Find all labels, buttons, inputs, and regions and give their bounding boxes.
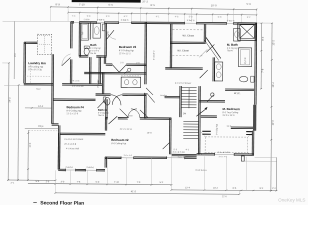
stair arrow: [196, 109, 206, 117]
svg-text:Landing: Landing: [160, 95, 167, 97]
bottom dims row B: [28, 183, 171, 184]
bath shelf: [102, 24, 105, 31]
laundry room walls: [24, 41, 37, 43]
closet dividers south of bath: [88, 57, 90, 84]
bath2 door arcs: [111, 95, 121, 106]
mbedroom entry wall: [199, 100, 225, 102]
closet rod dashes: [173, 29, 203, 31]
west wall window marks: [202, 131, 211, 135]
svg-text:3'-0 x 6'-8 sldr: 3'-0 x 6'-8 sldr: [72, 85, 84, 88]
svg-text:Bath #2: Bath #2: [98, 108, 108, 112]
svg-text:Tile Flr: Tile Flr: [90, 53, 96, 55]
svg-text:15'-0 x 16'-0: 15'-0 x 16'-0: [222, 115, 235, 117]
svg-text:3'-6 CLG HGT ROOF: 3'-6 CLG HGT ROOF: [64, 139, 84, 141]
svg-text:8'-2: 8'-2: [262, 36, 265, 41]
hallway north wall: [62, 83, 102, 85]
svg-text:Ridge: Ridge: [38, 126, 45, 128]
svg-text:41'-2: 41'-2: [131, 190, 137, 193]
closet south wall: [165, 67, 202, 69]
mbath vanity2: [233, 29, 240, 42]
svg-text:11'-0: 11'-0: [272, 120, 275, 126]
stairwell east wall: [197, 86, 199, 154]
exterior right wall: [254, 23, 257, 105]
svg-text:W.I. Closet: W.I. Closet: [182, 34, 194, 37]
mbedroom entry closet wall: [201, 115, 217, 117]
svg-text:8'-0 Clg Hgt: 8'-0 Clg Hgt: [90, 47, 101, 50]
dashed roof lines: [29, 130, 59, 132]
bottom right step: [241, 156, 244, 161]
bedroom3 closet doors: [112, 65, 119, 73]
svg-text:2'-6x3'-6: 2'-6x3'-6: [66, 167, 73, 169]
svg-text:W.I.C.: W.I.C.: [234, 92, 241, 95]
svg-text:5'-6: 5'-6: [247, 2, 252, 6]
svg-text:21'-2 x 13'-8: 21'-2 x 13'-8: [64, 144, 77, 146]
bath tub: [81, 23, 89, 40]
central wall: [144, 22, 146, 84]
svg-text:Linen: Linen: [128, 115, 133, 117]
svg-text:Hallway: Hallway: [98, 79, 100, 88]
bath2 toilet: [105, 97, 110, 105]
svg-text:Bath: Bath: [90, 43, 97, 47]
svg-text:5'-8 x 3'-6: 5'-8 x 3'-6: [71, 80, 79, 82]
svg-text:12'-4: 12'-4: [185, 187, 191, 189]
bedroom2 north wall: [105, 116, 107, 118]
svg-text:11'-2 x 12'-0: 11'-2 x 12'-0: [66, 113, 79, 115]
svg-text:3'-0x1'-6: 3'-0x1'-6: [187, 20, 195, 22]
svg-text:14'-2: 14'-2: [38, 105, 44, 108]
extension line top-left: [3, 20, 72, 22]
svg-text:W.I. Closet: W.I. Closet: [177, 49, 189, 52]
west wall jog: [52, 123, 59, 125]
svg-text:10'-0: 10'-0: [211, 3, 217, 7]
svg-text:Roof Below: Roof Below: [196, 170, 208, 172]
svg-text:Bedroom #4: Bedroom #4: [66, 105, 84, 109]
svg-text:22'-6: 22'-6: [222, 196, 228, 198]
bump west wall: [57, 133, 59, 169]
main left wall: [70, 22, 72, 49]
svg-text:3'-0x1'-6: 3'-0x1'-6: [227, 20, 235, 22]
svg-text:9'-0 Trey Ceiling: 9'-0 Trey Ceiling: [222, 111, 239, 114]
exterior top wall: [71, 21, 74, 23]
svg-text:21'-2 x 11'-8: 21'-2 x 11'-8: [120, 129, 133, 131]
bath2 south wall: [96, 93, 111, 95]
mbath tub: [238, 48, 251, 67]
svg-text:8'-0 Ceiling Hgt: 8'-0 Ceiling Hgt: [111, 142, 126, 145]
mbath south wall: [225, 88, 254, 90]
svg-text:3'-0x4'-6: 3'-0x4'-6: [97, 19, 105, 21]
svg-text:3'-0 x 4'-6 DH: 3'-0 x 4'-6 DH: [218, 152, 231, 154]
svg-text:37'-2: 37'-2: [142, 0, 148, 4]
bath right wall: [104, 23, 106, 56]
stair lower treads: [183, 120, 198, 122]
bath2 west wall: [101, 73, 103, 94]
mbedroom door swing: [207, 95, 214, 102]
svg-text:My Tub: My Tub: [245, 56, 247, 63]
right dimension lines: [260, 23, 262, 89]
mbath vanity: [215, 62, 223, 81]
svg-text:2'-8 x 4'-0: 2'-8 x 4'-0: [178, 157, 186, 159]
svg-text:7'-10: 7'-10: [79, 2, 85, 6]
svg-text:Bedroom #3: Bedroom #3: [119, 45, 137, 49]
svg-text:8'-9: 8'-9: [56, 2, 61, 6]
svg-text:5-0500: 5-0500: [84, 19, 90, 21]
mbath shower: [238, 23, 257, 41]
bedroom3 entry door: [107, 30, 114, 39]
svg-text:6'-5: 6'-5: [109, 3, 114, 7]
hall closet arcs: [128, 109, 137, 118]
bedroom2 door swing: [109, 116, 118, 124]
bottom dims row D: [55, 193, 239, 194]
svg-text:4'-0 Knee Wall: 4'-0 Knee Wall: [66, 148, 79, 150]
svg-text:9'-0 Clg Hgt: 9'-0 Clg Hgt: [215, 124, 218, 135]
left dimension lines: [7, 63, 10, 180]
stair treads: [182, 87, 197, 89]
stair hall door: [200, 70, 208, 78]
svg-text:8'-0 Ceiling Hgt: 8'-0 Ceiling Hgt: [66, 109, 81, 112]
extension verticals top: [50, 8, 52, 21]
hallway south wall: [53, 98, 95, 100]
stairwell west wall: [179, 86, 181, 117]
svg-text:3'-0 x 4'-6 DH: 3'-0 x 4'-6 DH: [173, 152, 186, 154]
svg-text:8'-5: 8'-5: [151, 3, 156, 7]
angled closet doors: [206, 37, 221, 58]
svg-text:13'-8: 13'-8: [30, 142, 32, 148]
svg-text:3'-0x4'-6: 3'-0x4'-6: [121, 20, 129, 22]
top dimension line overall: [51, 7, 257, 10]
bedroom3 west wall: [103, 57, 105, 64]
west wall mid: [51, 54, 53, 123]
central door swing: [146, 88, 153, 95]
exterior bottom wall right part: [197, 152, 215, 154]
top dimension line secondary: [68, 13, 257, 15]
svg-text:Bedroom #2: Bedroom #2: [111, 138, 129, 142]
bath divider wall: [89, 22, 91, 39]
svg-text:12'-0 x 11'-2: 12'-0 x 11'-2: [119, 53, 132, 55]
bump south wall: [58, 168, 65, 170]
bottom dims row A: [8, 179, 55, 181]
svg-text:Roof: Roof: [36, 89, 41, 91]
svg-text:12'-2: 12'-2: [272, 40, 275, 46]
svg-text:Laundry Rm: Laundry Rm: [28, 61, 46, 65]
svg-text:M. Bedroom: M. Bedroom: [222, 107, 240, 111]
bedroom2 bottom wall: [105, 156, 121, 158]
svg-text:29'-2: 29'-2: [8, 97, 11, 103]
svg-text:Tile Flr: Tile Flr: [98, 115, 104, 117]
bath toilet: [84, 48, 89, 55]
svg-text:2'-6x3'-6: 2'-6x3'-6: [87, 167, 94, 169]
bedroom3 ceiling fan: [128, 68, 131, 71]
laundry door swing: [62, 57, 71, 66]
svg-text:4'-0 x 5'-0 Shower: 4'-0 x 5'-0 Shower: [175, 83, 191, 85]
bump north wall: [60, 132, 105, 134]
svg-text:3'-0 x 4'-6: 3'-0 x 4'-6: [124, 155, 132, 157]
washer dryer alcove: [37, 34, 51, 55]
svg-text:10'-2: 10'-2: [213, 188, 219, 190]
svg-text:M. Bath: M. Bath: [227, 43, 238, 47]
bedroom3 south wall: [84, 71, 146, 73]
closet west wall: [169, 24, 171, 68]
bath2 door diag: [120, 109, 129, 118]
svg-text:8'-0 Clg Hgt: 8'-0 Clg Hgt: [227, 47, 238, 50]
svg-text:OneKey MLS: OneKey MLS: [278, 197, 305, 202]
bedroom3 closet wall: [106, 63, 112, 65]
svg-text:7'-10: 7'-10: [114, 182, 120, 184]
bath south wall: [79, 55, 88, 57]
svg-text:Tile Flr: Tile Flr: [227, 50, 233, 52]
closet east wall: [203, 24, 205, 42]
hall door diag: [147, 93, 155, 102]
bottom dims row C: [171, 189, 276, 192]
svg-text:5'-10x5'-2: 5'-10x5'-2: [153, 50, 155, 60]
bedroom4 door swing: [97, 101, 104, 109]
header bar: [72, 0, 141, 3]
mbath toilet: [239, 76, 247, 82]
bedroom2 east wall: [168, 118, 170, 154]
svg-text:15'-4: 15'-4: [272, 82, 275, 88]
bedroom2 west wall: [104, 117, 106, 130]
wic south wall: [231, 126, 253, 128]
extension verticals bottom: [54, 170, 56, 193]
svg-text:8'-0 Ceiling Hgt: 8'-0 Ceiling Hgt: [119, 49, 134, 52]
svg-text:3'-0 x 4'-6: 3'-0 x 4'-6: [219, 156, 227, 158]
bath2 vanity: [121, 77, 141, 88]
bath left wall: [78, 23, 80, 56]
bath shower: [93, 23, 101, 38]
landing south wall: [165, 95, 180, 97]
svg-text:DN: DN: [183, 113, 187, 115]
exterior bottom wall mid part: [172, 153, 197, 155]
closet divider wall: [170, 41, 205, 43]
bedroom2 left wall lower: [104, 157, 106, 168]
bedroom2 door swing: [163, 143, 170, 150]
svg-text:Second Floor Plan: Second Floor Plan: [40, 200, 84, 205]
svg-text:7'-6: 7'-6: [261, 68, 264, 73]
tray ceiling dashed: [205, 137, 248, 153]
bedroom4 east wall: [105, 99, 107, 117]
svg-text:16'-0: 16'-0: [147, 132, 153, 134]
